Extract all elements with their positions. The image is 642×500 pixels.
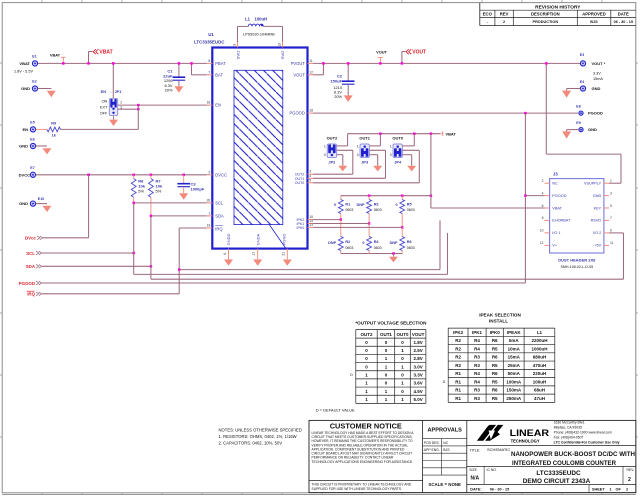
svg-text:R5: R5 [492,396,498,401]
svg-text:1: 1 [357,144,359,148]
svg-text:OUT0: OUT0 [295,181,305,185]
svg-text:LTC3335EUDC: LTC3335EUDC [536,470,581,477]
wire OUT1 [313,177,386,179]
svg-text:PGOOD: PGOOD [552,194,566,198]
svg-text:R9: R9 [51,121,56,125]
svg-text:D: D [443,380,446,384]
date row [470,485,628,493]
terminal E8 [576,104,603,115]
svg-text:LINEAR: LINEAR [510,428,550,438]
svg-text:2: 2 [503,20,505,24]
svg-text:R2: R2 [455,355,461,360]
svg-text:250mA: 250mA [506,396,522,401]
svg-text:R5: R5 [492,379,498,384]
svg-text:680uH: 680uH [533,355,547,360]
svg-text:REVISION HISTORY: REVISION HISTORY [535,4,581,10]
svg-text:3: 3 [610,191,612,195]
svg-text:+5V: +5V [594,244,601,248]
jumper JP2 [327,144,336,158]
terminal E10 [19,197,44,206]
ground GNDD [224,254,233,266]
svg-text:R6: R6 [407,240,412,244]
wire PGOOD to J3 pin4 [525,195,544,197]
svg-text:GNDA: GNDA [256,233,261,245]
svg-text:SHEET: SHEET [592,487,605,491]
svg-text:PCB DES.: PCB DES. [424,441,440,445]
svg-text:NANOPOWER BUCK-BOOST DC/DC WIT: NANOPOWER BUCK-BOOST DC/DC WITH [511,451,635,458]
svg-text:9: 9 [610,229,612,233]
svg-text:SCALE = NONE: SCALE = NONE [428,482,461,487]
svg-text:IPK2: IPK2 [453,330,464,335]
svg-text:THIS CIRCUIT IS PROPRIETARY TO: THIS CIRCUIT IS PROPRIETARY TO LINEAR TE… [312,482,412,486]
svg-text:INSTALL: INSTALL [489,318,508,323]
wire E10 to ground [36,203,47,205]
svg-text:06 - 30 - 15: 06 - 30 - 15 [490,487,509,491]
svg-text:NOTES: UNLESS OTHERWISE SPECIF: NOTES: UNLESS OTHERWISE SPECIFIED [219,428,302,433]
svg-text:DESCRIPTION: DESCRIPTION [531,12,560,17]
wires JP2 [337,146,353,174]
svg-text:EXT: EXT [100,106,108,110]
svg-text:JP3: JP3 [361,160,369,165]
svg-text:6: 6 [223,253,227,255]
R6 labels [390,240,415,250]
svg-text:GND: GND [19,144,28,149]
svg-text:R5: R5 [492,363,498,368]
U1 top/bottom pin names [226,50,287,245]
svg-text:21: 21 [282,252,286,256]
net SCL connector [26,251,41,256]
wire IPK top rail [341,194,432,197]
svg-text:L1: L1 [537,330,543,335]
svg-text:5%: 5% [138,188,144,193]
net DVcc connector [25,236,43,241]
svg-text:19: 19 [207,224,211,228]
svg-text:2.8V: 2.8V [413,356,422,361]
svg-text:APP ENG.: APP ENG. [424,448,440,452]
svg-text:R1: R1 [455,396,461,401]
svg-text:10: 10 [278,43,282,47]
svg-text:N/A: N/A [471,475,480,481]
svg-text:JP4: JP4 [394,160,402,165]
J3 pins [540,179,614,248]
svg-text:DNP: DNP [356,203,364,207]
svg-text:R4: R4 [474,338,480,343]
terminal E2 [21,80,37,92]
wire BAT branch [190,62,207,75]
wire JP1 pin3 [118,108,139,110]
svg-text:VSUPPLY: VSUPPLY [584,182,602,186]
svg-text:IRQ: IRQ [27,292,35,297]
svg-text:R3: R3 [474,355,480,360]
svg-text:BJS: BJS [443,448,450,452]
svg-text:0603: 0603 [374,246,382,250]
svg-text:2: 2 [208,170,210,174]
svg-text:PBAT: PBAT [215,61,226,66]
net PGOOD connector [19,281,42,286]
R3 labels [356,202,381,212]
svg-text:ON: ON [102,100,108,104]
svg-text:25mA: 25mA [508,363,521,368]
svg-text:VOUT: VOUT [412,50,426,56]
wire JP1 pin2 to EN [118,104,207,106]
svg-text:GND: GND [593,194,602,198]
wire SDA [42,265,152,268]
svg-text:EN: EN [101,89,107,94]
svg-text:1.8V - 5.5V: 1.8V - 5.5V [14,70,33,74]
wire SDA net [150,215,624,280]
svg-text:IPEAK: IPEAK [507,330,522,335]
svg-text:20%: 20% [334,94,342,99]
svg-text:JP2: JP2 [328,160,336,165]
svg-text:NC: NC [443,441,448,445]
svg-text:R4: R4 [474,371,480,376]
svg-text:0603: 0603 [345,246,353,250]
svg-text:Milpitas, CA 95035: Milpitas, CA 95035 [554,425,582,429]
svg-text:15mA: 15mA [508,355,521,360]
wire SCL [42,252,135,255]
J3 part labels [558,257,596,269]
C3 labels [191,182,205,192]
svg-text:R2: R2 [345,240,350,244]
svg-text:TECHNOLOGY: TECHNOLOGY [511,438,540,443]
svg-text:DVCC: DVCC [19,172,30,177]
svg-text:17: 17 [252,252,256,256]
ground under C2 [344,95,353,102]
svg-text:16: 16 [207,101,211,105]
capacitor C3 [177,175,190,193]
ground at E2 [47,91,56,98]
terminal E5 [22,121,35,132]
svg-text:OUT1: OUT1 [359,136,370,141]
svg-text:E4: E4 [580,80,584,84]
svg-text:NC: NC [552,182,558,186]
svg-text:GND: GND [588,127,597,132]
net flag VBAT mid [440,131,456,136]
terminal E9 [576,121,597,132]
svg-text:R4: R4 [474,346,480,351]
svg-text:0603: 0603 [407,246,415,250]
svg-text:R3: R3 [474,363,480,368]
svg-text:OFF: OFF [100,111,108,115]
svg-text:5: 5 [309,178,311,182]
wire E2 to ground [38,88,52,90]
svg-text:VBAT: VBAT [99,50,112,56]
terminal E6 [19,137,35,148]
title text [467,447,636,467]
svg-text:5mA: 5mA [509,338,520,343]
output voltage selection table title [355,320,427,325]
svg-text:SDA: SDA [215,213,224,218]
svg-text:D: D [350,373,353,377]
svg-text:R1: R1 [455,379,461,384]
svg-text:12: 12 [309,70,313,74]
ground GNDA [253,254,262,266]
svg-text:DNP: DNP [328,241,336,245]
JP1 labels [100,89,123,115]
svg-text:VBAT: VBAT [19,61,30,66]
svg-text:2.5V: 2.5V [413,348,422,353]
svg-text:E10: E10 [38,197,44,201]
svg-text:TECHNOLOGY APPLICATIONS ENGINE: TECHNOLOGY APPLICATIONS ENGINEERING FOR … [312,460,414,464]
jumper JP3 [360,144,369,158]
svg-text:DNP: DNP [390,241,398,245]
wire J3 IO2 [609,232,624,234]
svg-text:VOUT: VOUT [376,50,387,55]
svg-text:R2: R2 [455,363,461,368]
resistor R5 [400,196,405,229]
svg-text:0603: 0603 [374,208,382,212]
wire PGOOD pin18 [313,112,578,115]
svg-text:11: 11 [610,241,614,245]
svg-text:IPK1: IPK1 [472,330,483,335]
U1 left pin names [215,61,227,232]
svg-text:J3: J3 [553,171,558,176]
svg-text:SCHEMATIC: SCHEMATIC [487,447,510,452]
svg-text:4: 4 [542,191,544,195]
wire C1 to gnd [178,80,180,86]
svg-text:R6: R6 [492,371,498,376]
svg-text:PGOOD: PGOOD [588,111,603,116]
U1 refdes label [194,32,225,45]
svg-text:0: 0 [390,153,392,157]
svg-text:SW2: SW2 [280,50,285,59]
wire VBAT rail [38,62,207,64]
svg-text:4: 4 [309,174,311,178]
svg-text:GND: GND [19,201,28,206]
svg-text:INTEGRATED COULOMB COUNTER: INTEGRATED COULOMB COUNTER [512,460,616,467]
svg-text:68uH: 68uH [534,388,545,393]
svg-text:100uH: 100uH [255,16,268,21]
wire IPK2 [313,219,341,221]
notes text [219,428,302,446]
svg-text:VOUT *: VOUT * [592,61,606,66]
wire IPK bottom rail [341,252,402,255]
svg-text:4.5V: 4.5V [413,389,422,394]
svg-text:LPS5030-104MRB: LPS5030-104MRB [243,32,275,36]
default marker D left [350,373,353,377]
R9 labels [51,121,56,137]
ground under JP2 [338,166,347,172]
R8 labels [138,178,145,193]
jumper JP4 [393,144,402,158]
output voltage selection table [356,330,426,404]
resistor R3 [367,196,372,225]
svg-text:E8: E8 [576,104,580,108]
title block boxes [309,420,636,492]
svg-text:R3: R3 [374,202,379,206]
ground PGND [283,254,292,266]
svg-text:10: 10 [540,229,544,233]
svg-text:E2: E2 [32,80,36,84]
resistor R7 [149,175,154,216]
svg-text:OUT0: OUT0 [396,332,408,337]
svg-text:1: 1 [610,487,612,491]
svg-text:1. RESISTORS: OHMS, 0402, 1%,: 1. RESISTORS: OHMS, 0402, 1%, 1/16W [219,434,297,439]
wire SCL net [132,202,447,275]
svg-text:VBAT: VBAT [552,206,562,210]
svg-text:LTC Confidential-For Customer: LTC Confidential-For Customer Use Only [554,440,620,444]
svg-text:0: 0 [362,241,364,245]
resistor R8 [131,175,136,203]
node EN junctions [137,104,140,130]
wire OUT0 [313,182,419,184]
svg-text:SCL: SCL [26,251,35,256]
svg-text:R5: R5 [492,346,498,351]
ground IPK rail [389,254,398,263]
svg-text:TITLE:: TITLE: [470,448,481,452]
svg-text:D = DEFAULT VALUE: D = DEFAULT VALUE [316,408,355,413]
net flag VBAT top [87,49,112,64]
svg-text:1: 1 [610,179,612,183]
svg-text:I/O 1: I/O 1 [552,231,560,235]
svg-text:8: 8 [542,216,544,220]
svg-text:100uH: 100uH [533,379,547,384]
resistor R2 [338,220,343,254]
svg-text:REV.: REV. [627,468,635,472]
wire VOUT pin12 [313,62,325,75]
jumper JP1 [109,98,117,115]
svg-text:0: 0 [324,153,326,157]
wire IRQ net [178,220,440,293]
R5 labels [395,202,414,212]
svg-text:OUT1: OUT1 [380,332,392,337]
svg-text:REV: REV [500,12,509,17]
svg-text:2: 2 [542,179,544,183]
svg-text:9: 9 [233,44,237,46]
svg-text:SCL: SCL [215,200,224,205]
svg-text:18: 18 [309,109,313,113]
svg-text:IRQ: IRQ [215,226,222,231]
svg-text:R4: R4 [474,379,480,384]
svg-text:OUT2: OUT2 [327,136,338,141]
svg-text:VOUT: VOUT [412,332,425,337]
svg-text:220uH: 220uH [533,371,547,376]
svg-text:EN: EN [22,127,28,132]
svg-text:150uF: 150uF [330,79,342,84]
svg-text:GND: GND [21,86,30,91]
ground at E4 [562,91,571,98]
svg-text:PGND: PGND [282,234,287,246]
wire VOUT to J3 VSUPPLY [545,62,621,183]
svg-text:2: 2 [120,101,122,105]
svg-text:2: 2 [626,487,628,491]
svg-text:0603: 0603 [407,208,415,212]
wire PGOOD vertical [524,113,527,283]
wires JP3 [369,134,385,179]
inductor L1 [238,24,283,42]
wire E5 to R9 [36,128,47,130]
svg-text:1000pF: 1000pF [191,187,205,192]
svg-text:RSVD: RSVD [591,219,602,223]
wire IRQ left [42,293,179,295]
svg-text:2200uH: 2200uH [531,338,547,343]
wire IPK0 [313,226,402,228]
svg-text:LTC3335EUDC: LTC3335EUDC [194,40,225,45]
svg-text:1000uH: 1000uH [531,346,547,351]
ground under JP3 [373,166,382,172]
J3 refdes [553,171,558,176]
svg-text:ECO: ECO [483,12,493,17]
svg-text:BJS: BJS [590,20,598,24]
C1 labels [163,68,173,92]
C2 labels [330,74,342,99]
svg-text:150mA: 150mA [506,388,522,393]
svg-text:1: 1 [390,144,392,148]
svg-text:E3: E3 [580,53,584,57]
svg-text:7: 7 [208,70,210,74]
svg-text:R2: R2 [455,338,461,343]
svg-text:SIZE: SIZE [469,468,477,472]
net flag VOUT top [401,49,427,64]
default marker D right [443,380,446,384]
svg-text:E6: E6 [30,137,34,141]
svg-text:0603: 0603 [345,208,353,212]
wire R9 to EN riser [61,128,139,130]
revision history table [480,3,636,26]
wire DVcc [43,175,89,238]
resistor R4 [367,224,372,254]
terminal E4 [580,80,601,91]
terminal E3 [580,53,606,81]
svg-text:0: 0 [395,203,397,207]
svg-text:1: 1 [324,144,326,148]
svg-text:IPK0: IPK0 [297,226,305,230]
svg-text:12: 12 [540,241,544,245]
svg-text:APPROVALS: APPROVALS [427,428,462,434]
svg-text:8: 8 [208,59,210,63]
svg-text:6: 6 [542,204,544,208]
ground under JP4 [407,166,416,172]
svg-text:DATE:: DATE: [470,487,481,491]
svg-text:PVOUT: PVOUT [291,61,306,66]
terminal E1 [14,55,38,74]
svg-text:DVcc: DVcc [25,236,37,241]
svg-text:IPEAK SELECTION: IPEAK SELECTION [479,312,521,317]
wire E4 to ground [567,89,581,91]
U1 pin stubs and numbers [207,42,314,256]
node VOUT testpoint [376,50,387,65]
svg-text:JP1: JP1 [115,89,123,94]
svg-text:PRODUCTION: PRODUCTION [533,20,559,24]
svg-text:IPK0: IPK0 [490,330,501,335]
svg-text:E9: E9 [576,121,580,125]
op-amp U1 LTC3335EUDC body [212,48,307,249]
svg-text:3.3V: 3.3V [593,72,601,76]
wire VBAT jumper rail [348,132,441,145]
svg-text:SW1: SW1 [235,50,240,59]
svg-text:E5: E5 [30,121,34,125]
svg-text:U1: U1 [208,32,214,37]
svg-text:R6: R6 [492,388,498,393]
svg-text:20%: 20% [165,87,173,92]
wire IPK1 [313,223,369,225]
svg-text:SMH-106-02-L-D-05: SMH-106-02-L-D-05 [561,265,594,269]
svg-text:*OUTPUT VOLTAGE SELECTION: *OUTPUT VOLTAGE SELECTION [355,320,427,325]
svg-text:EHORBAT: EHORBAT [552,219,571,223]
svg-text:Fax: (408)434-0507: Fax: (408)434-0507 [554,435,584,439]
svg-text:R6: R6 [492,338,498,343]
svg-text:R3: R3 [474,396,480,401]
svg-text:5%: 5% [156,188,162,193]
svg-text:IC NO.: IC NO. [487,468,497,472]
R2 labels [328,240,353,250]
svg-text:2. CAPACITORS: 0402, 10%, 50: 2. CAPACITORS: 0402, 10%, 50V [219,441,283,446]
resistor R9 [47,127,61,132]
svg-text:DUST HEADER 2X6: DUST HEADER 2X6 [558,257,596,262]
svg-text:CUSTOMER NOTICE: CUSTOMER NOTICE [330,422,402,431]
svg-text:R6: R6 [492,355,498,360]
wire VOUT rail [313,62,580,64]
